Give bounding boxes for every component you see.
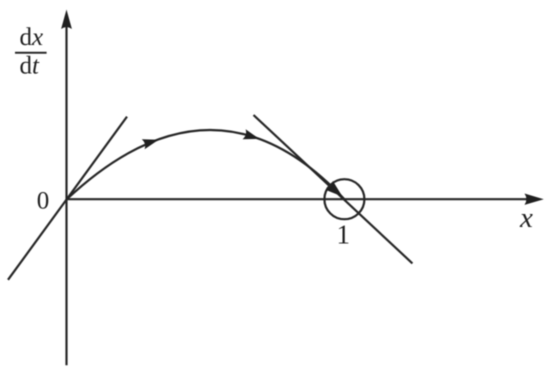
svg-text:dt: dt <box>20 53 41 80</box>
tangent line at origin <box>8 117 127 280</box>
curve arrowhead 1 <box>142 135 160 149</box>
x-axis (horizontal) <box>67 198 529 200</box>
fraction bar <box>15 52 47 54</box>
tangent line at x=1 <box>254 115 413 263</box>
svg-text:dx: dx <box>20 24 44 51</box>
circle around fixed point (1,0) <box>324 179 364 219</box>
curve arrowhead 3 at circle <box>325 181 346 201</box>
trajectory curve <box>67 130 345 200</box>
svg-text:0: 0 <box>37 188 50 215</box>
svg-text:x: x <box>519 202 533 234</box>
svg-text:1: 1 <box>337 220 351 250</box>
curve arrowhead 2 <box>243 129 261 144</box>
y-axis (vertical) <box>65 24 67 365</box>
y-axis arrowhead <box>61 10 72 30</box>
x-axis arrowhead <box>525 194 544 205</box>
